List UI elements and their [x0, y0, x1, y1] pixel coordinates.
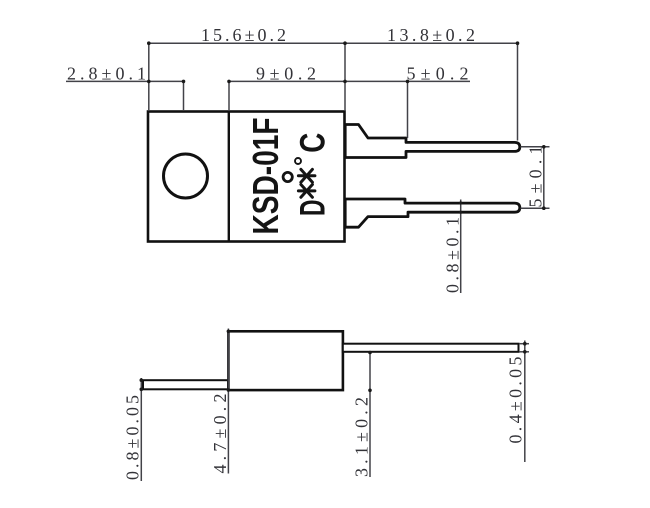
upper lead (pin 1): [345, 125, 520, 158]
dimension lines: [66, 43, 550, 293]
lead (side view): [343, 344, 519, 352]
dim line top (15.6 / 13.8): [149, 42, 518, 44]
svg-text:KSD-01F: KSD-01F: [245, 118, 286, 235]
dim line 0.4+-0.05: [524, 341, 526, 463]
body outline (side view): [228, 331, 343, 390]
dim line 9 / 5: [229, 80, 470, 82]
marking asterisk 1 (lower): [298, 185, 315, 198]
ext line lead step: [407, 81, 409, 138]
ext line lower lead tip right: [521, 207, 550, 209]
svg-text:D: D: [294, 200, 333, 217]
dim line 0.8+-0.05: [140, 378, 142, 481]
ext line body left top: [148, 43, 150, 111]
dim line 2.8: [66, 80, 184, 82]
dim line 4.7+-0.2: [227, 329, 229, 474]
ext line lead end bottom: [519, 351, 529, 353]
dim line 5+-0.1 vertical: [543, 147, 545, 208]
marking asterisk 2 (upper): [298, 169, 315, 182]
leader line 0.8+-0.1: [460, 200, 462, 294]
metal tab (side view strip): [143, 380, 228, 389]
dimension tick dots top view: [147, 41, 546, 213]
marking bold o: [283, 172, 292, 181]
ext line upper lead tip right: [521, 146, 550, 148]
body outline (front view): [148, 112, 345, 242]
ext line lead end top: [519, 343, 529, 345]
ext line lead tip: [517, 43, 519, 140]
lower lead (pin 2): [345, 199, 520, 227]
svg-text:C: C: [294, 133, 333, 153]
dimension lines bottom view: [141, 329, 529, 482]
tab/body divider line: [228, 112, 230, 242]
ext line divider: [228, 81, 230, 111]
marking degree symbol: [295, 158, 301, 164]
dimension tick dots bottom view: [140, 330, 527, 393]
ext line body right: [344, 43, 346, 111]
dim line 3.1+-0.2: [369, 352, 371, 477]
mounting hole: [164, 154, 208, 198]
ext line hole center: [183, 81, 185, 110]
